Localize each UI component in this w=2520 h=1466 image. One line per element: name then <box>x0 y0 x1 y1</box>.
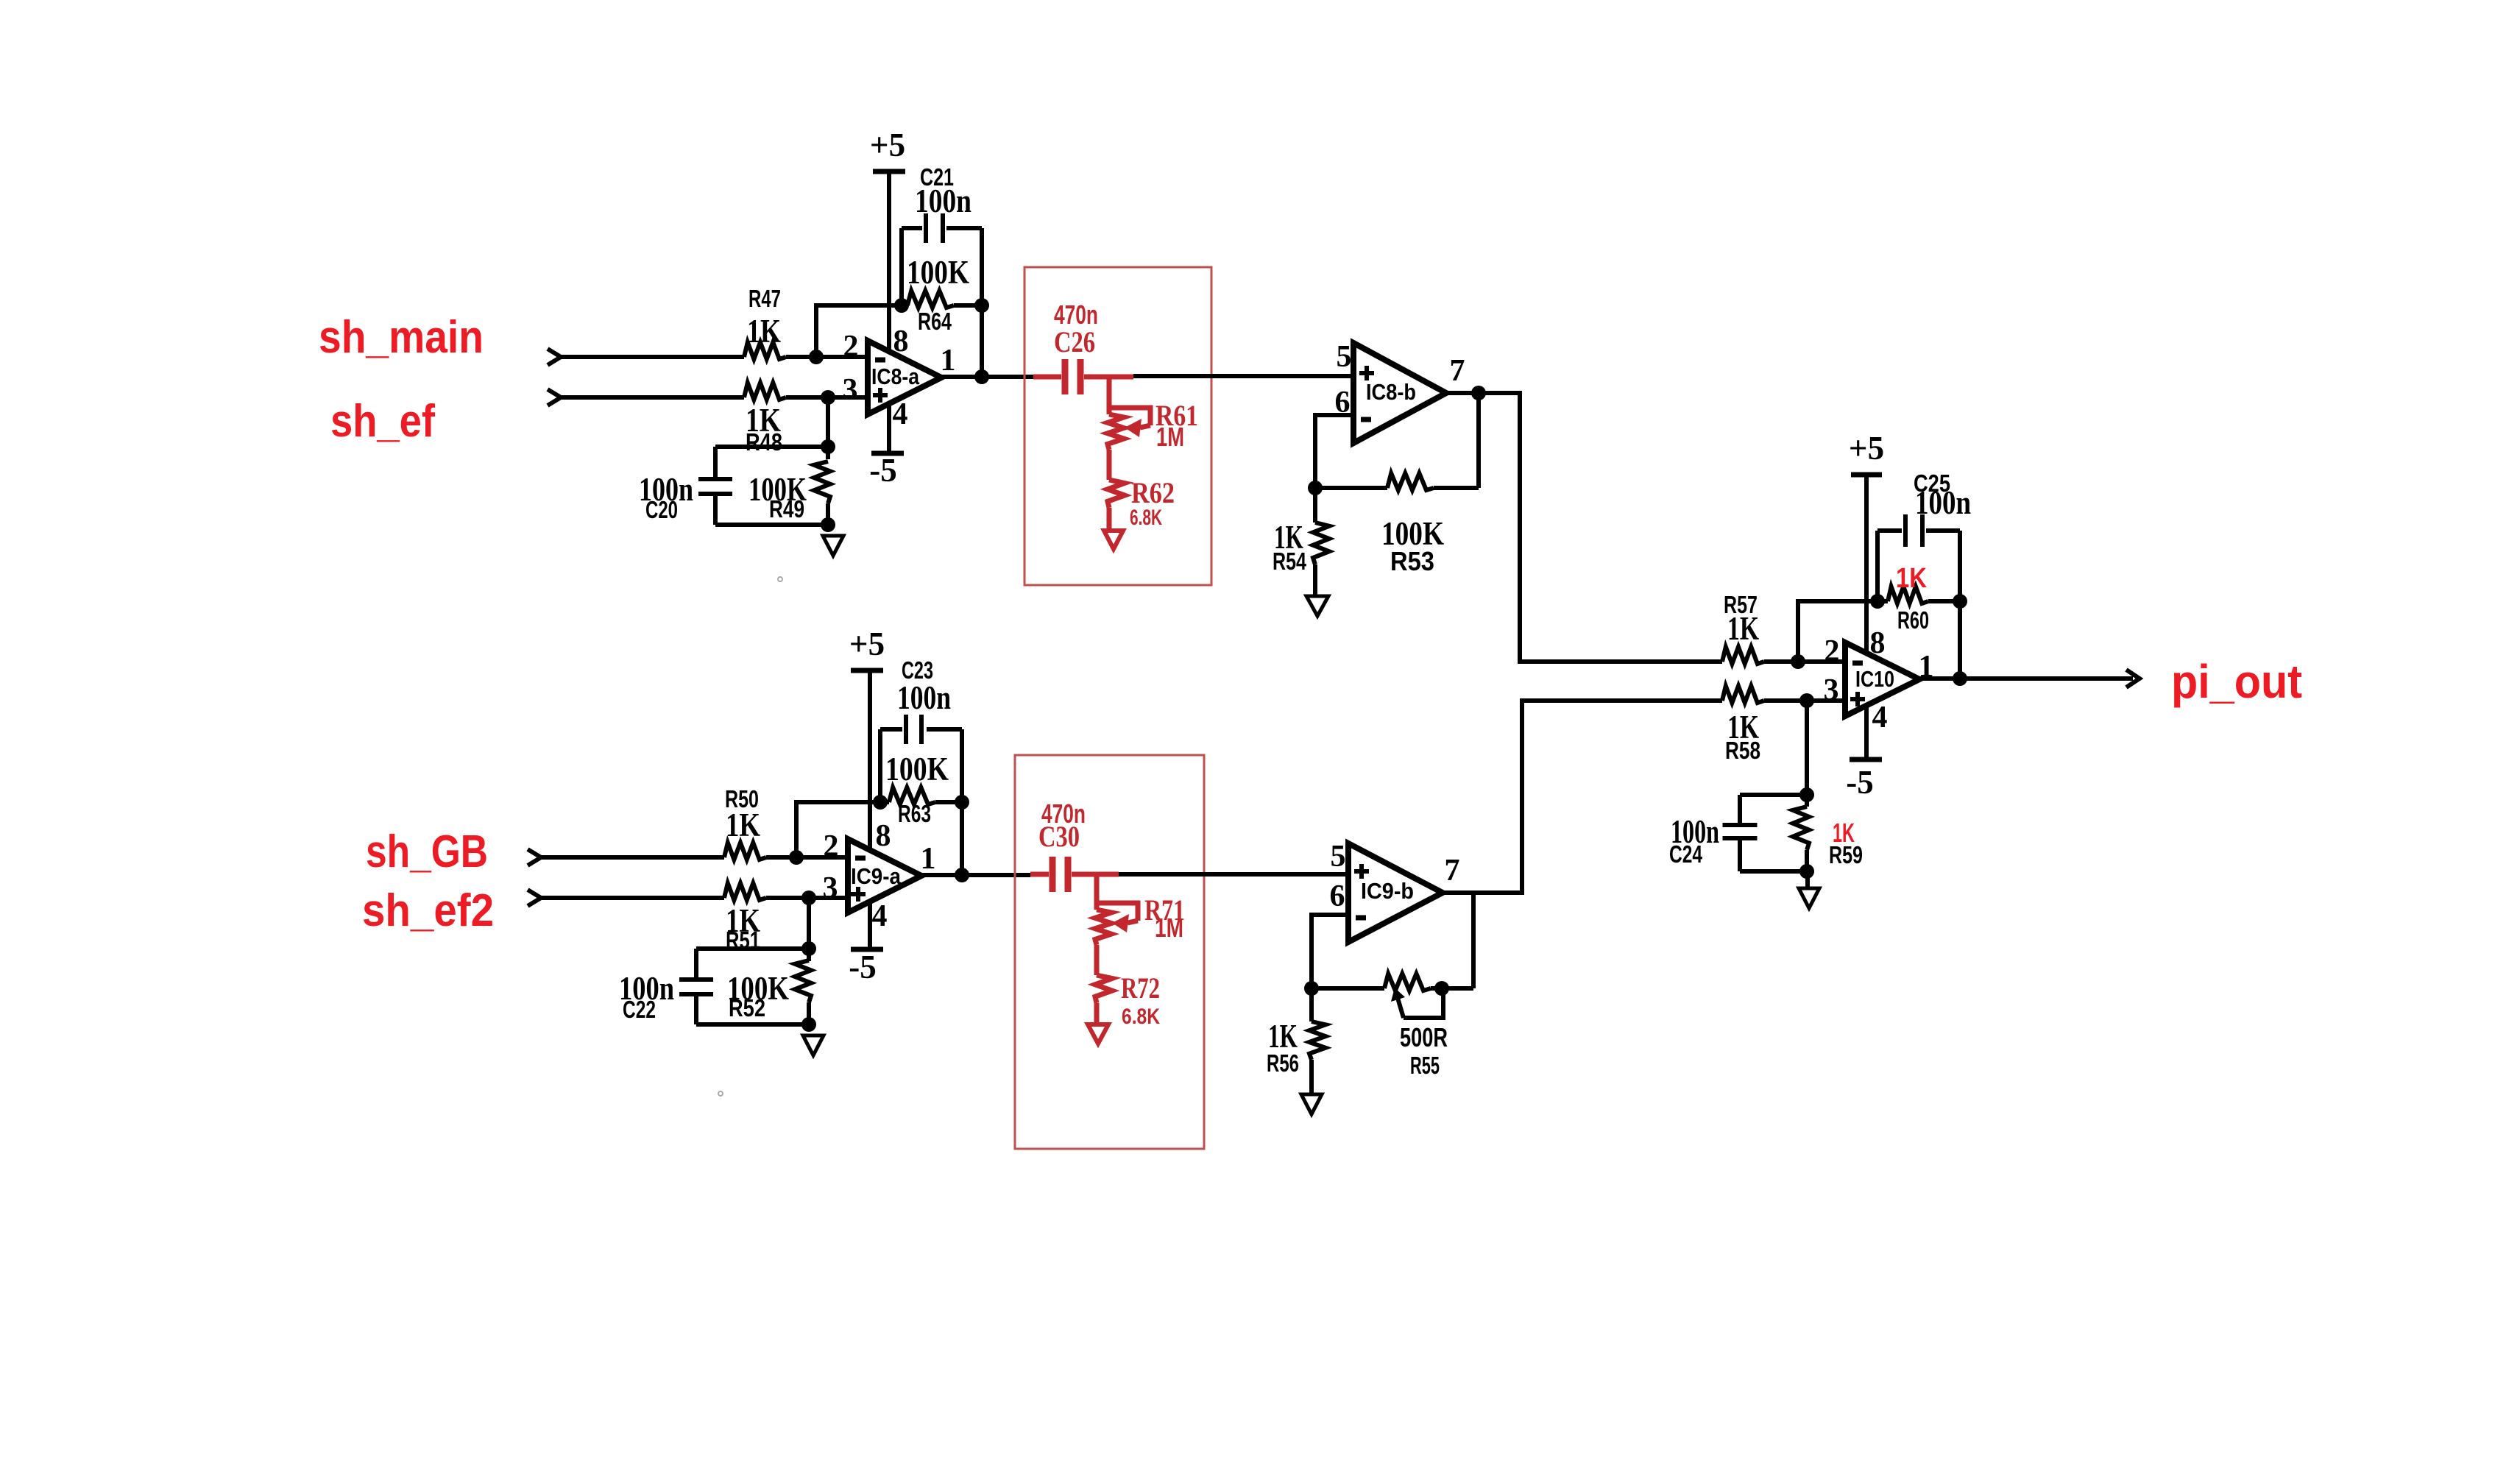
resistor R57 1K <box>1722 647 1764 664</box>
svg-text:sh_main: sh_main <box>319 312 484 363</box>
svg-text:100n: 100n <box>897 679 951 716</box>
resistor R52 100K <box>807 949 811 961</box>
wire IC8-b output <box>1446 393 1722 662</box>
wire pin2 node up to R60 left <box>1798 601 1877 662</box>
wire IC10 output to pi_out <box>1919 676 2133 681</box>
junction node R49 bottom <box>821 517 835 532</box>
capacitor C21 100n feedback <box>899 228 904 305</box>
svg-text:7: 7 <box>1450 354 1465 388</box>
wire R53 right up to output <box>1476 393 1481 488</box>
junction node R52 bottom <box>801 1017 816 1032</box>
resistor R56 1K <box>1309 988 1314 1021</box>
svg-text:R59: R59 <box>1829 841 1863 868</box>
wire R48 to IC8-a pin 3 <box>786 395 868 400</box>
svg-text:R58: R58 <box>1725 737 1760 764</box>
resistor R48 1K <box>744 383 786 400</box>
svg-text:IC8-b: IC8-b <box>1366 379 1416 405</box>
svg-text:+5: +5 <box>870 127 905 163</box>
op-amp IC8-b <box>1353 343 1446 443</box>
svg-text:1: 1 <box>921 842 936 876</box>
wire pin3 node down to R52 <box>807 898 811 949</box>
svg-text:-5: -5 <box>1846 764 1874 801</box>
power -5 rail IC10 pin 4 <box>1850 757 1882 762</box>
wire R61 to R62 <box>1107 450 1112 480</box>
junction node R64 right <box>974 298 989 313</box>
ground for R56 <box>1301 1094 1322 1114</box>
junction node IC8-a output <box>974 369 989 384</box>
svg-text:R47: R47 <box>748 285 781 312</box>
svg-text:R54: R54 <box>1273 548 1306 575</box>
wire IC8-b pin6 stub <box>1315 415 1353 488</box>
junction node R52 top <box>801 941 816 956</box>
svg-text:3: 3 <box>843 373 858 407</box>
junction node R60 right <box>1953 594 1967 609</box>
svg-text:100K: 100K <box>907 254 969 291</box>
svg-text:pi_out: pi_out <box>2171 655 2302 708</box>
wire C30 to IC9-b pin 5 <box>1119 872 1348 877</box>
wire IC9-b output <box>1443 701 1722 893</box>
svg-text:IC10: IC10 <box>1855 666 1894 692</box>
svg-text:8: 8 <box>876 819 891 853</box>
svg-text:R56: R56 <box>1267 1049 1299 1077</box>
svg-text:R48: R48 <box>746 428 782 456</box>
wire pin3 node down to R49 <box>826 397 830 447</box>
svg-text:1: 1 <box>941 344 956 378</box>
svg-text:C30: C30 <box>1038 820 1080 853</box>
junction node R55 right <box>1434 981 1449 996</box>
capacitor C30 470n <box>1030 872 1049 877</box>
resistor R62 6.8K <box>1108 480 1125 508</box>
svg-text:2: 2 <box>824 829 839 863</box>
resistor R58 1K <box>1722 686 1764 703</box>
wire sh_main to R47 <box>561 355 744 359</box>
wire C26 to IC8-b pin 5 <box>1133 374 1353 378</box>
svg-text:4: 4 <box>872 899 888 933</box>
node sh_ef input port <box>548 389 561 406</box>
capacitor C22 100n <box>696 946 809 951</box>
svg-text:R52: R52 <box>729 994 765 1021</box>
capacitor C25 100n feedback <box>1875 531 1880 601</box>
resistor R51 1K <box>724 883 766 900</box>
svg-text:sh_ef2: sh_ef2 <box>362 885 494 936</box>
svg-text:IC9-b: IC9-b <box>1361 878 1414 904</box>
capacitor C23 100n feedback <box>878 729 882 802</box>
junction node IC10 pin2 <box>1791 654 1805 669</box>
svg-text:500R: 500R <box>1400 1022 1448 1052</box>
power +5 rail IC8-a pin 8 <box>873 169 905 174</box>
junction node R63 right <box>955 795 969 810</box>
svg-text:R60: R60 <box>1897 606 1929 634</box>
power -5 rail IC8-a pin 4 <box>871 451 904 456</box>
junction node IC9-a output <box>955 868 969 882</box>
potentiometer R61 1M <box>1107 377 1112 414</box>
svg-text:1K: 1K <box>726 807 760 843</box>
junction node R59 top <box>1799 787 1814 802</box>
svg-text:R72: R72 <box>1121 971 1160 1005</box>
svg-text:2: 2 <box>1824 634 1840 668</box>
resistor R54 1K <box>1313 523 1329 564</box>
wire pin2 node up to R64 left <box>816 305 902 357</box>
svg-text:IC9-a: IC9-a <box>851 863 902 889</box>
junction node R64 left <box>894 298 909 313</box>
svg-text:R63: R63 <box>898 800 931 827</box>
junction node R47/pin2 <box>809 350 824 364</box>
svg-text:6: 6 <box>1330 879 1345 913</box>
wire R71 to R72 <box>1094 945 1100 975</box>
ground for R59/C24 <box>1799 888 1819 908</box>
junction node IC10 pin3 <box>1799 693 1814 708</box>
svg-text:R49: R49 <box>769 495 804 523</box>
node sh_ef2 input port <box>528 890 541 906</box>
ground for R52/C22 <box>803 1035 824 1055</box>
ground for R49/C20 <box>823 536 843 556</box>
svg-text:5: 5 <box>1331 840 1346 874</box>
wire pin3 node down to R59 <box>1805 701 1809 795</box>
svg-text:R62: R62 <box>1131 476 1175 509</box>
power -5 rail IC9-a pin 4 <box>851 947 883 952</box>
ground for R62 <box>1104 531 1123 549</box>
svg-text:R53: R53 <box>1390 546 1434 576</box>
svg-text:8: 8 <box>893 325 909 358</box>
wire R60 right to output <box>1958 601 1962 679</box>
capacitor C20 100n <box>715 445 828 449</box>
junction node R51/pin3 <box>801 890 816 905</box>
svg-text:R55: R55 <box>1410 1052 1440 1079</box>
resistor R60 1K feedback <box>1877 599 1888 603</box>
svg-text:R64: R64 <box>918 308 952 335</box>
op-amp IC10 <box>1845 642 1919 716</box>
node sh_GB input port <box>528 849 541 865</box>
wire pin2 node up to R63 left <box>796 802 880 857</box>
resistor R59 1K <box>1793 807 1809 850</box>
op-amp IC9-a <box>848 839 921 913</box>
junction node R53/R54 <box>1308 481 1323 495</box>
stray mark top <box>778 577 782 581</box>
svg-text:100K: 100K <box>885 751 949 787</box>
svg-text:sh_GB: sh_GB <box>366 826 488 877</box>
junction node R63 left <box>873 795 888 810</box>
svg-text:6.8K: 6.8K <box>1130 506 1162 530</box>
svg-text:1M: 1M <box>1155 913 1183 943</box>
wire R47 to IC8-a pin 2 <box>786 355 868 359</box>
op-amp IC9-b <box>1348 843 1443 942</box>
wire sh_GB to R50 <box>541 855 724 860</box>
trimmer R55 500R <box>1312 986 1384 991</box>
wire sh_ef to R48 <box>561 395 744 400</box>
ground for R72 <box>1088 1024 1108 1044</box>
svg-text:-5: -5 <box>849 949 877 985</box>
junction node IC10 output <box>1953 671 1967 686</box>
wire sh_ef2 to R51 <box>541 896 724 900</box>
capacitor C26 470n <box>1033 375 1061 380</box>
junction node R50/pin2 <box>789 850 804 865</box>
power +5 rail IC9-a pin 8 <box>851 668 883 673</box>
svg-text:1K: 1K <box>747 313 781 350</box>
op-amp IC8-a <box>868 341 941 414</box>
svg-text:100n: 100n <box>1915 484 1971 521</box>
wire IC9-a output <box>921 873 1030 877</box>
svg-text:C20: C20 <box>645 496 678 523</box>
svg-text:IC8-a: IC8-a <box>871 364 920 389</box>
svg-text:7: 7 <box>1445 854 1460 888</box>
capacitor C24 100n <box>1740 793 1807 797</box>
svg-text:4: 4 <box>1872 701 1888 734</box>
resistor R49 100K <box>826 447 830 459</box>
svg-text:3: 3 <box>823 871 838 905</box>
resistor R47 1K <box>744 342 786 359</box>
junction node R59 bottom <box>1799 864 1814 879</box>
wire IC8-a output <box>941 375 1033 379</box>
wire R63 right to IC9-a output <box>960 802 964 875</box>
svg-text:8: 8 <box>1870 626 1886 660</box>
wire R50 to IC9-a pin 2 <box>766 855 848 860</box>
ground for R54 <box>1306 596 1328 616</box>
junction node R49 top <box>821 439 835 454</box>
svg-text:-5: -5 <box>869 452 897 489</box>
junction node IC8-b output <box>1471 386 1486 400</box>
junction node R55/R56 <box>1304 981 1319 996</box>
svg-text:1K: 1K <box>1727 610 1759 647</box>
junction node R48/pin3 <box>821 390 835 405</box>
wire R64 right to IC8-a output <box>980 305 984 377</box>
svg-text:6.8K: 6.8K <box>1122 1005 1160 1029</box>
svg-text:sh_ef: sh_ef <box>330 396 435 447</box>
svg-text:C24: C24 <box>1669 840 1702 868</box>
wire IC9-b output to R55 feedback <box>1471 893 1476 988</box>
potentiometer R71 1M <box>1094 874 1100 910</box>
wire R59 to ground <box>1805 871 1810 888</box>
svg-text:C26: C26 <box>1054 325 1095 358</box>
power +5 rail IC10 pin 8 <box>1851 472 1882 478</box>
resistor R72 6.8K <box>1095 975 1112 1003</box>
svg-text:+5: +5 <box>1849 430 1884 467</box>
svg-text:1K: 1K <box>1896 563 1927 594</box>
svg-text:1M: 1M <box>1156 422 1184 452</box>
wire R51 to IC9-a pin 3 <box>766 896 848 900</box>
svg-text:C22: C22 <box>623 996 656 1023</box>
node pi_out port arrow <box>2126 670 2139 687</box>
highlight box C26/R61/R62 <box>1024 267 1211 585</box>
svg-text:5: 5 <box>1337 340 1352 374</box>
svg-text:2: 2 <box>843 330 859 364</box>
resistor R50 1K <box>724 843 766 860</box>
junction node R60 left <box>1870 594 1885 609</box>
wire IC9-b pin6 stub <box>1312 915 1348 988</box>
resistor R53 100K feedback <box>1315 486 1387 490</box>
highlight box C30/R71/R72 <box>1015 755 1204 1149</box>
svg-text:4: 4 <box>893 397 908 431</box>
node sh_main input port <box>548 349 561 365</box>
svg-text:+5: +5 <box>849 626 885 662</box>
svg-text:100n: 100n <box>915 183 971 219</box>
resistor R63 100K feedback <box>880 800 889 804</box>
resistor R64 100K feedback <box>902 303 907 308</box>
svg-text:3: 3 <box>1824 673 1839 707</box>
stray mark bottom <box>718 1091 723 1096</box>
